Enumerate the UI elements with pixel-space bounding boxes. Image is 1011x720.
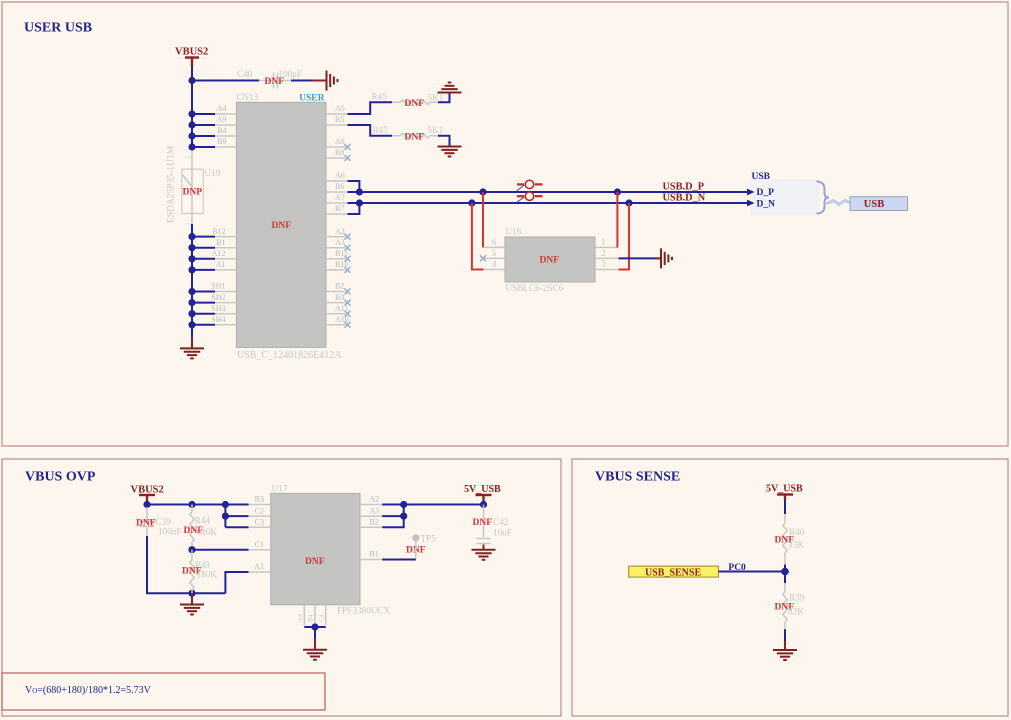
pin A10 (no connect)	[326, 324, 346, 326]
svg-text:USBLC6-2SC6: USBLC6-2SC6	[506, 283, 564, 293]
pin A12	[214, 258, 236, 260]
node PC0 junction	[781, 568, 789, 576]
pin A3 (no connect)	[326, 247, 346, 249]
svg-text:USB.D_N: USB.D_N	[663, 193, 706, 204]
svg-text:B8: B8	[335, 148, 344, 157]
red wire U16 pin 1 to D_P	[616, 192, 618, 247]
U16 pin 3	[595, 269, 619, 271]
pin A4	[214, 113, 236, 115]
ESD diode U19	[191, 151, 193, 225]
harness brace	[817, 182, 830, 214]
net label USB_SENSE	[629, 566, 719, 577]
svg-text:SH4: SH4	[211, 315, 225, 324]
svg-text:VBUS OVP: VBUS OVP	[25, 470, 96, 485]
svg-text:B12: B12	[212, 227, 225, 236]
wire left bus vertical (lower pins)	[191, 224, 193, 337]
ground under C42	[483, 545, 485, 550]
svg-text:USB.D_P: USB.D_P	[663, 182, 704, 193]
svg-text:USB: USB	[864, 199, 884, 210]
pin A7	[326, 202, 348, 204]
svg-text:5K1: 5K1	[428, 93, 444, 103]
pin SH3	[214, 313, 236, 315]
svg-text:DNP: DNP	[183, 188, 203, 198]
wire U16 pin 2 to ground	[619, 257, 661, 259]
svg-text:C2: C2	[255, 506, 264, 515]
EMI bead symbol on D_P	[517, 180, 543, 191]
U17 pin A1	[249, 571, 271, 573]
arrow D_N entry	[747, 200, 755, 207]
svg-text:A1: A1	[254, 562, 264, 571]
svg-text:SH1: SH1	[211, 282, 225, 291]
wire R40 to node	[784, 565, 786, 572]
U17 pin C1	[249, 549, 271, 551]
svg-text:B7: B7	[335, 204, 344, 213]
wire A3/B2 bridge	[382, 515, 404, 517]
svg-text:A9: A9	[217, 115, 227, 124]
resistor R40	[784, 514, 786, 523]
svg-text:6: 6	[492, 237, 497, 247]
pin B5 + resistor R47	[326, 124, 348, 126]
svg-text:680K: 680K	[197, 527, 218, 537]
harness USB group box	[751, 180, 819, 215]
pin B2 (no connect)	[326, 291, 346, 293]
ground under CN13 shield bus	[191, 337, 193, 348]
pin B11 (no connect)	[326, 258, 346, 260]
svg-text:PC0: PC0	[728, 563, 746, 573]
U16 pin 6	[484, 246, 506, 248]
pin SH4	[214, 324, 236, 326]
svg-text:5V_USB: 5V_USB	[766, 484, 803, 495]
svg-text:100nF: 100nF	[158, 527, 182, 537]
svg-text:C40: C40	[237, 69, 253, 79]
wire A1	[225, 572, 248, 593]
svg-text:A12: A12	[212, 249, 226, 258]
VBUS OVP section frame	[2, 459, 561, 716]
U17 pin C2	[249, 515, 271, 517]
pin A5 + resistor R45	[326, 113, 348, 115]
U16 pin 1	[595, 246, 619, 248]
pin A11 (no connect)	[326, 313, 346, 315]
ground (up-facing) at R45	[438, 83, 462, 93]
svg-text:USER USB: USER USB	[24, 21, 92, 36]
svg-text:A5: A5	[335, 104, 345, 113]
node VBUS2/C40 junction	[188, 77, 195, 84]
resistor R44	[191, 505, 193, 513]
pin A6	[326, 180, 348, 182]
formula note box	[2, 673, 325, 710]
pin SH1	[214, 291, 236, 293]
svg-text:USB_SENSE: USB_SENSE	[645, 568, 701, 579]
svg-text:A4: A4	[217, 104, 227, 113]
svg-text:C42: C42	[493, 517, 509, 527]
wire C2/C3 bridge	[224, 505, 226, 528]
wire C40 to ground	[291, 80, 312, 82]
svg-text:2: 2	[601, 248, 606, 258]
svg-text:CN13: CN13	[236, 92, 258, 102]
svg-text:B2: B2	[369, 517, 378, 526]
pin A9	[214, 124, 236, 126]
svg-text:1: 1	[186, 156, 193, 159]
svg-text:A6: A6	[335, 171, 345, 180]
resistor R43	[191, 550, 193, 560]
svg-text:R39: R39	[789, 593, 805, 603]
svg-text:A3: A3	[335, 238, 345, 247]
svg-text:SH3: SH3	[211, 304, 225, 313]
U17 pin B2	[360, 526, 382, 528]
pin B3 (no connect)	[326, 302, 346, 304]
svg-text:B9: B9	[217, 137, 226, 146]
svg-text:B5: B5	[335, 115, 344, 124]
svg-text:100pF: 100pF	[279, 69, 303, 79]
svg-text:D_N: D_N	[757, 199, 776, 209]
svg-text:B10: B10	[335, 260, 348, 269]
pin B7	[326, 213, 348, 215]
wire C1	[192, 549, 249, 551]
VBUS SENSE section frame	[572, 459, 1008, 716]
wire USB.D_N	[348, 202, 749, 204]
svg-text:5: 5	[492, 248, 497, 258]
svg-text:DNF: DNF	[272, 221, 292, 231]
wire VBUS2 vertical upper	[191, 66, 193, 150]
red wire D_P to U16 pin 6	[482, 192, 484, 247]
svg-text:A11: A11	[335, 304, 348, 313]
capacitor C42	[483, 505, 485, 538]
svg-text:B1: B1	[369, 550, 378, 559]
pin SH2	[214, 302, 236, 304]
svg-text:33K: 33K	[788, 540, 804, 550]
U17 pin A3	[360, 515, 382, 517]
svg-text:VBUS2: VBUS2	[175, 47, 208, 58]
pin A1	[214, 269, 236, 271]
svg-text:B2: B2	[335, 282, 344, 291]
svg-text:B4: B4	[308, 614, 315, 622]
red wire D_N to U16 pin 4	[472, 203, 484, 270]
U17 pin B3	[249, 504, 271, 506]
svg-text:R47: R47	[373, 125, 389, 135]
wire B1 to TP5	[382, 559, 416, 561]
U17 pin A2	[360, 504, 382, 506]
svg-text:DNF: DNF	[540, 256, 560, 266]
harness cable squiggle	[828, 200, 851, 204]
U16 pin 5 (no connect)	[484, 257, 506, 259]
svg-text:U17: U17	[272, 484, 288, 494]
svg-text:180K: 180K	[197, 570, 218, 580]
svg-text:1: 1	[601, 237, 606, 247]
wire A2 to 5V_USB	[382, 504, 483, 506]
U17 bottom pins A4/B4/C4	[303, 605, 305, 626]
pin B9	[214, 146, 236, 148]
svg-text:3: 3	[601, 259, 606, 269]
svg-text:DNF: DNF	[305, 557, 325, 567]
svg-text:VO=(680+180)/180*1.2=5.73V: VO=(680+180)/180*1.2=5.73V	[25, 685, 152, 696]
svg-text:USB: USB	[752, 172, 771, 182]
wire R39 to ground	[784, 629, 786, 641]
svg-text:A7: A7	[335, 193, 345, 202]
chip U17	[271, 493, 360, 604]
wire PC0	[718, 571, 785, 573]
capacitor C40	[259, 80, 272, 82]
wire left bus vertical (upper pins)	[191, 81, 193, 151]
svg-text:B3: B3	[255, 495, 264, 504]
svg-text:R45: R45	[372, 92, 388, 102]
node VBUS2 junction	[143, 501, 150, 508]
sheet port USB	[850, 197, 908, 211]
svg-text:ESDA25P35-1U1M: ESDA25P35-1U1M	[167, 145, 177, 223]
wire C40 branch left	[192, 80, 259, 82]
capacitor C39	[146, 505, 148, 509]
svg-text:DNF: DNF	[405, 99, 425, 109]
svg-text:U19: U19	[205, 168, 221, 178]
node R44/C1 junction	[188, 546, 195, 553]
svg-text:A2: A2	[335, 227, 345, 236]
svg-text:A10: A10	[335, 315, 349, 324]
pin B8 (no connect)	[326, 157, 346, 159]
svg-text:D_P: D_P	[757, 188, 775, 198]
ground under U17	[303, 650, 327, 660]
svg-text:5V_USB: 5V_USB	[464, 484, 501, 495]
svg-text:C3: C3	[255, 517, 264, 526]
svg-text:82K: 82K	[788, 607, 804, 617]
pin B4	[214, 135, 236, 137]
svg-text:DNF: DNF	[136, 519, 156, 529]
svg-text:FPF3380UCX: FPF3380UCX	[337, 606, 390, 616]
svg-text:B3: B3	[335, 293, 344, 302]
svg-text:A4: A4	[297, 613, 304, 622]
svg-text:A3: A3	[369, 506, 379, 515]
svg-text:B4: B4	[217, 126, 226, 135]
U17 pin C3	[249, 526, 271, 528]
svg-text:R44: R44	[195, 516, 211, 526]
svg-text:USER: USER	[299, 94, 324, 104]
ground (right-facing) at C40	[327, 71, 338, 91]
svg-text:C1: C1	[255, 540, 264, 549]
pin A2 (no connect)	[326, 236, 346, 238]
U16 pin 4	[484, 269, 506, 271]
svg-text:USB_C_12401826E412A: USB_C_12401826E412A	[237, 350, 342, 361]
svg-text:5K1: 5K1	[428, 125, 444, 135]
pin B6	[326, 191, 348, 193]
ground at R47	[438, 147, 462, 157]
pin A8 (no connect)	[326, 146, 346, 148]
svg-text:SH2: SH2	[211, 293, 225, 302]
connector CN13	[236, 102, 326, 347]
svg-text:U16: U16	[506, 227, 522, 237]
svg-text:4: 4	[492, 259, 497, 269]
test point TP5	[412, 534, 419, 541]
wire USB.D_P	[348, 191, 749, 193]
pin B12	[214, 236, 236, 238]
svg-text:VBUS SENSE: VBUS SENSE	[595, 470, 680, 485]
wire bottom pins to ground	[304, 626, 325, 628]
ground under R43	[191, 593, 193, 604]
svg-text:B1: B1	[216, 238, 225, 247]
wire C39 down to bottom rail	[147, 536, 225, 593]
U16 pin 2	[595, 257, 619, 259]
arrow D_P entry	[747, 189, 755, 196]
U17 pin B1	[360, 559, 382, 561]
USER USB section frame	[2, 2, 1008, 446]
pin B1	[214, 247, 236, 249]
svg-text:10uF: 10uF	[493, 528, 512, 538]
EMI bead symbol on D_N	[517, 192, 543, 202]
svg-text:TP5: TP5	[421, 534, 437, 544]
svg-text:A1: A1	[216, 260, 226, 269]
svg-text:A8: A8	[335, 137, 345, 146]
chip U16	[505, 237, 595, 282]
svg-text:C39: C39	[156, 517, 172, 527]
ground (right-facing) at U16 pin 2	[661, 248, 672, 268]
svg-text:C4: C4	[318, 614, 325, 622]
resistor R39	[784, 572, 786, 584]
ground under R39	[773, 650, 797, 660]
svg-text:DNF: DNF	[473, 518, 493, 528]
red wire U16 pin 3 to D_N	[619, 203, 630, 270]
svg-text:DNF: DNF	[405, 133, 425, 143]
svg-text:B6: B6	[335, 182, 344, 191]
pin B10 (no connect)	[326, 269, 346, 271]
wire VBUS2 to B3	[147, 504, 249, 506]
svg-text:A2: A2	[369, 495, 379, 504]
